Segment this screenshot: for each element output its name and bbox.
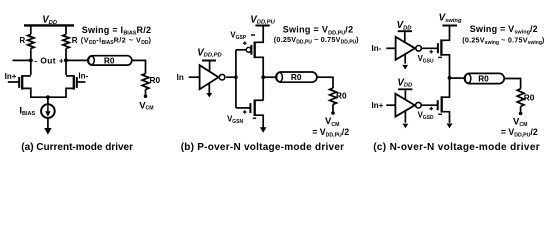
svg-text:In+: In+ [5, 72, 17, 81]
svg-text:R: R [19, 36, 25, 45]
svg-text:R: R [72, 36, 78, 45]
svg-text:(a) Current-mode driver: (a) Current-mode driver [21, 142, 133, 153]
svg-text:(b) P-over-N voltage-mode driv: (b) P-over-N voltage-mode driver [181, 142, 345, 153]
svg-text:R0: R0 [478, 74, 489, 84]
svg-text:(c) N-over-N voltage-mode driv: (c) N-over-N voltage-mode driver [373, 142, 540, 153]
svg-text:R0: R0 [104, 55, 115, 65]
svg-text:In-: In- [78, 72, 88, 81]
svg-text:R0: R0 [524, 93, 535, 103]
svg-text:In-: In- [372, 44, 382, 53]
svg-text:In: In [177, 73, 184, 82]
svg-text:In+: In+ [372, 101, 384, 110]
svg-text:R0: R0 [150, 75, 161, 85]
svg-text:R0: R0 [291, 72, 302, 82]
svg-text:- Out +: - Out + [34, 55, 64, 65]
svg-text:R0: R0 [336, 91, 347, 101]
